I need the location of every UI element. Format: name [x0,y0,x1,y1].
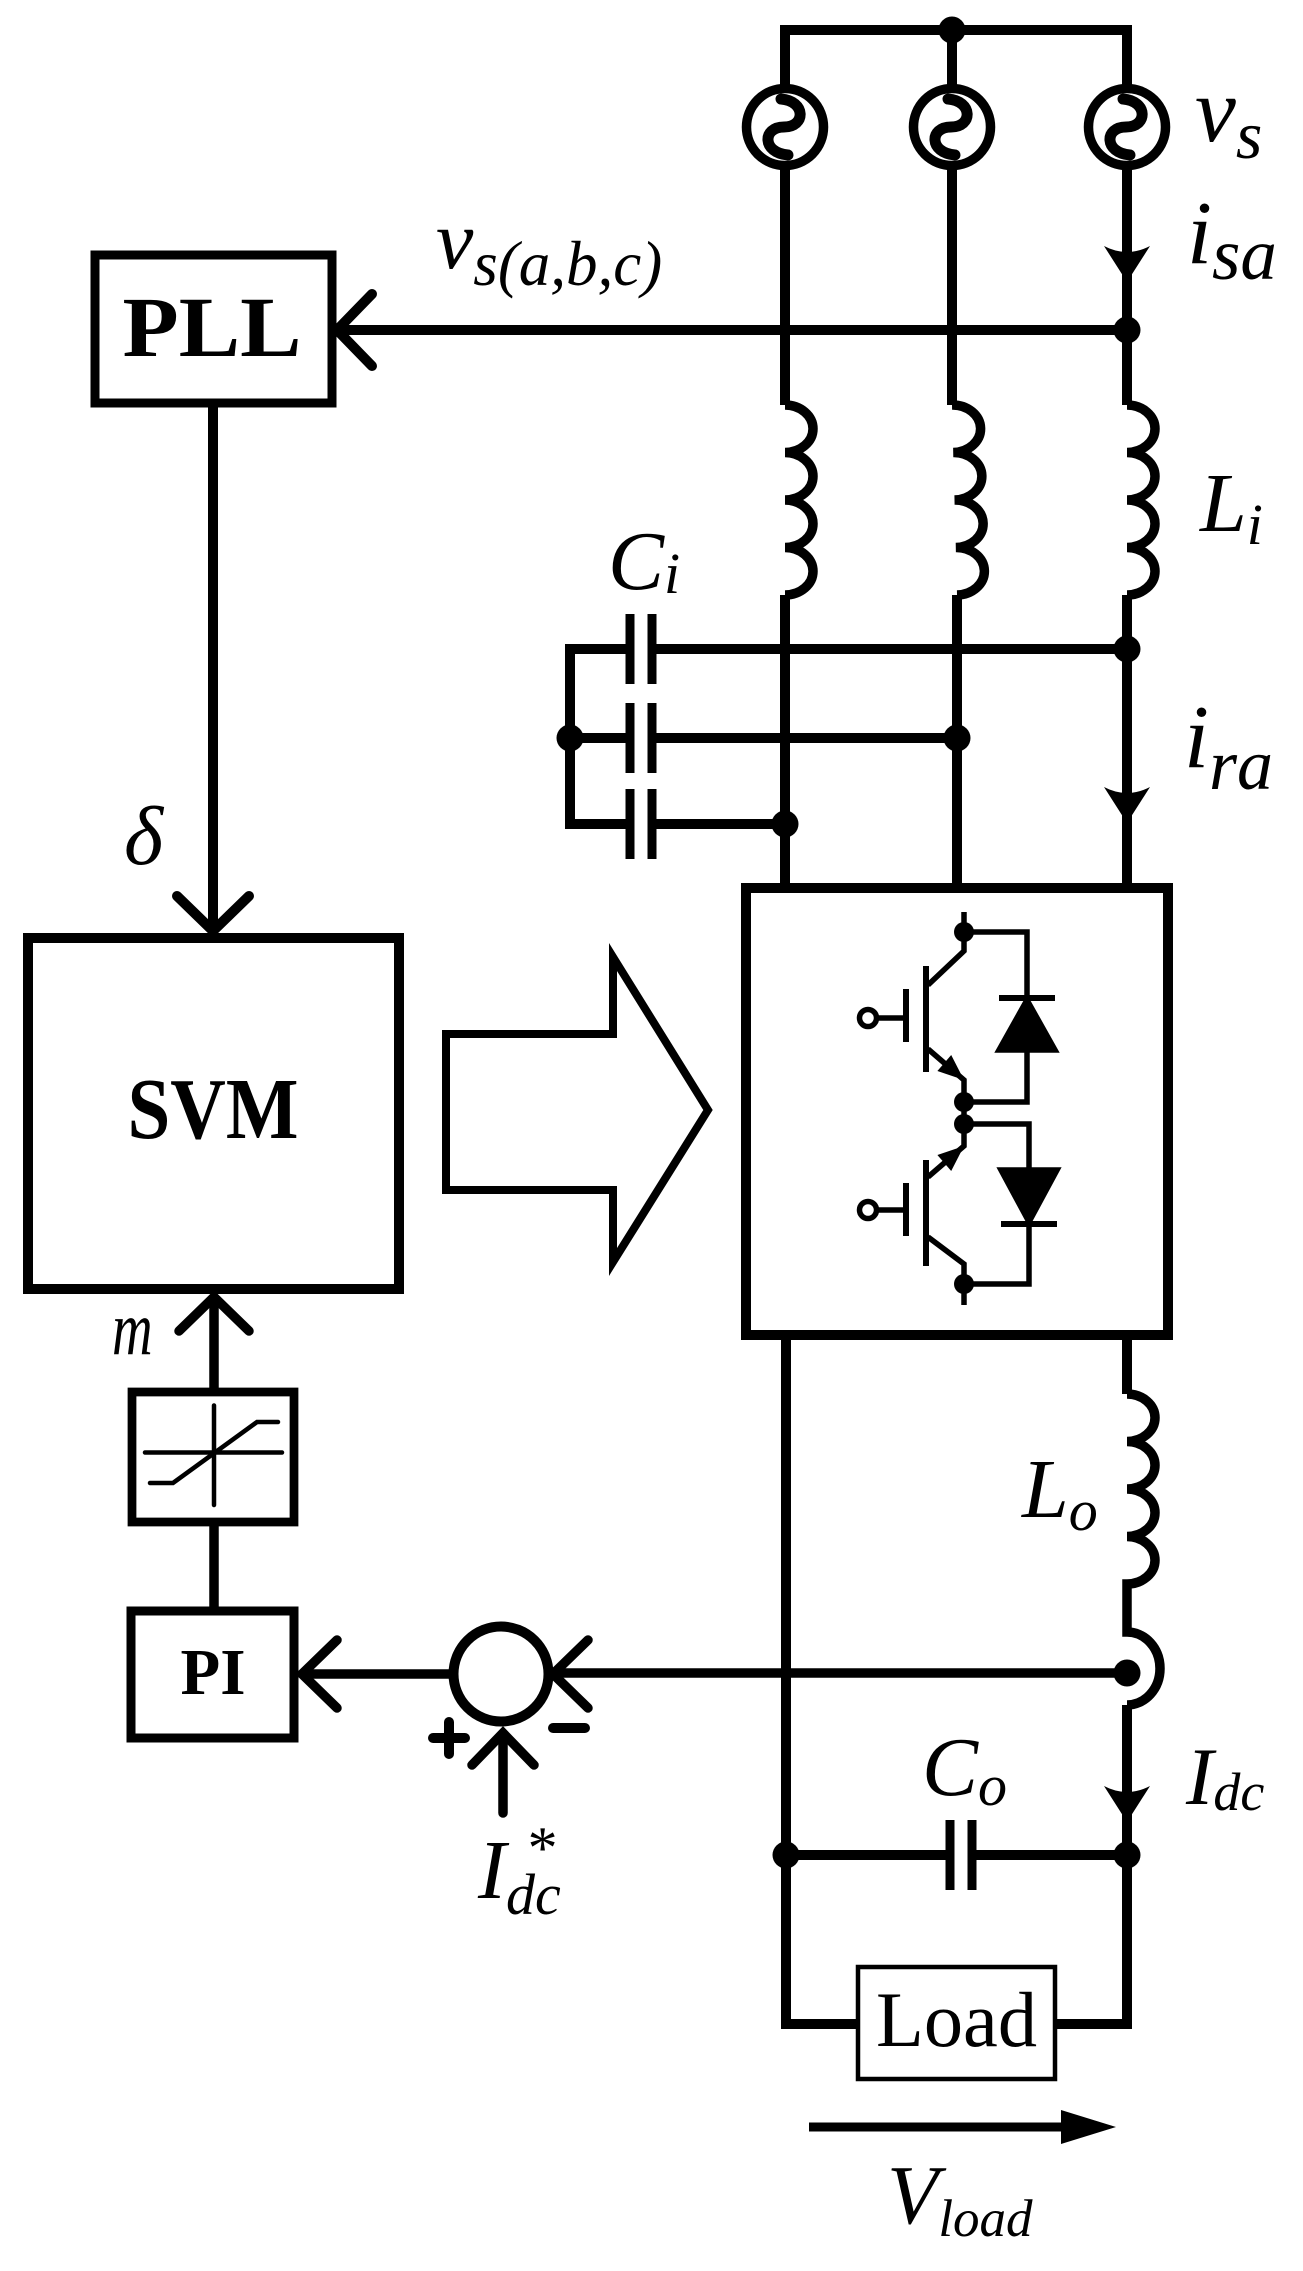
inductor Li phase-b [952,405,984,595]
transistor Q2 (IGBT) [860,1124,965,1284]
wire phase-c mid [1122,595,1132,888]
block PI [131,1611,294,1738]
block PLL [95,255,332,403]
label isa [1187,184,1277,295]
capacitor Ci-1 [570,614,1122,684]
label ira [1184,688,1273,805]
wire load right [1054,1855,1127,2024]
arrow delta into SVM (chevron) [177,896,249,931]
limiter saturation curve [150,1422,278,1483]
wire Q2 emitter stub [961,1284,967,1305]
inductor Li phase-a [785,405,813,595]
label Idc* [477,1815,561,1927]
svg-text:Load: Load [876,1976,1037,2063]
block SVM [28,938,399,1289]
node Co left [773,1842,800,1869]
label PI [181,1636,246,1709]
wire PLL to SVM [208,403,218,925]
svg-text:PI: PI [181,1636,246,1709]
capacitor Ci-3 [570,789,785,859]
label vs(a,b,c) [436,194,662,299]
label Li [1199,457,1263,557]
wire m [209,1300,219,1388]
diode D1 [964,932,1055,1102]
arrow Vload [809,2110,1116,2144]
arrow ira (current direction) [1104,787,1150,823]
wire dc right lower [1122,1705,1132,1850]
ac source Vsa [747,89,824,166]
wire Q1 collector stub [961,912,967,932]
arrow into summing junction from right (chevron) [553,1640,588,1708]
wire phase-a mid [780,595,790,888]
wire phase-c vertical upper [1122,166,1132,405]
svg-text:δ: δ [124,790,165,883]
capacitor Co [786,1820,1127,1890]
arrow into PLL (chevron) [337,294,372,366]
label Lo [1021,1443,1098,1543]
label Idc [1185,1731,1264,1822]
capacitor Ci-2 [570,703,952,773]
arrow into PI (chevron) [302,1640,337,1708]
block Load [858,1967,1055,2079]
wire phase-c stub [1122,25,1132,89]
wire feedback Idc [556,1668,1122,1678]
wire summing junction to PI [305,1669,456,1679]
node Lo tap [1114,1660,1141,1687]
ac source Vsc [1089,89,1166,166]
block converter [746,888,1168,1335]
wire top bus [785,25,1127,35]
node Ci-2 to phase-b [944,725,971,752]
arrow Idc (current direction) [1104,1786,1150,1822]
node mid upper [954,1092,974,1112]
node Q1 collector [954,922,974,942]
wire load left [786,1855,858,2024]
label Load [876,1976,1037,2063]
wire Idc* reference [498,1737,508,1813]
diode D2 [964,1124,1057,1284]
ac source Vsb [914,89,991,166]
label PLL [123,279,302,375]
inductor Li phase-c [1127,405,1155,595]
node Ci-3 to phase-a [772,811,799,838]
arrow isa (current direction) [1104,246,1150,282]
wire Ci left bus [565,644,575,829]
node mid lower [954,1114,974,1134]
wire phase-b stub [947,30,957,89]
label Ci [608,515,680,608]
arrow Idc* into summing junction (chevron) [472,1733,534,1765]
node Co right [1114,1842,1141,1869]
label plus [433,1722,465,1754]
wire dc right upper [1122,1335,1132,1394]
node Q2 emitter [954,1274,974,1294]
label SVM [128,1060,299,1157]
label m [112,1287,153,1371]
arrow m into SVM (chevron) [179,1297,249,1331]
summing junction [454,1627,549,1722]
wire phase-b mid [952,595,962,888]
svg-text:m: m [112,1287,153,1371]
inductor Lo [1127,1394,1160,1705]
wire PLL input line [341,325,1122,335]
node Ci-1 to phase-c [1114,636,1141,663]
svg-text:PLL: PLL [123,279,302,375]
wire limiter to PI [209,1522,219,1607]
label Vload [887,2149,1033,2248]
wire phase-b vertical upper [947,166,957,405]
label minus [553,1723,585,1733]
block limiter [132,1392,294,1522]
label delta [124,790,165,883]
wire mid link [961,1102,967,1124]
svg-text:SVM: SVM [128,1060,299,1157]
label vs [1195,59,1262,173]
big arrow SVM to converter [446,957,708,1262]
transistor Q1 (IGBT) [860,938,965,1102]
limiter axes [145,1406,282,1506]
wire phase-a stub [780,25,790,89]
wire dc left [781,1335,791,1850]
label Co [922,1721,1007,1818]
node phase-c PLL tap [1114,317,1141,344]
converter internals [860,912,1058,1305]
node Ci-2 left bus [557,725,584,752]
node top bus junction [939,17,966,44]
wire phase-a vertical upper [780,166,790,405]
